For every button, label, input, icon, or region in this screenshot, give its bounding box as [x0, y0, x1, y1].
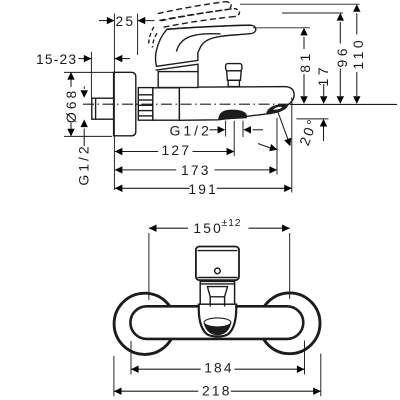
- svg-text:96: 96: [334, 45, 350, 68]
- handle back dashed arcs: [152, 33, 157, 47]
- svg-text:G1/2: G1/2: [170, 122, 212, 138]
- cartridge collar (front): [200, 281, 234, 306]
- svg-text:±12: ±12: [222, 217, 242, 229]
- escutcheon (side view): [114, 72, 136, 136]
- handle top edge (thick): [167, 25, 251, 29]
- wall bar (capsule): [130, 306, 303, 339]
- valve body: [153, 88, 180, 120]
- svg-text:127: 127: [161, 143, 191, 158]
- dim 96: [282, 13, 350, 104]
- dim 15-23: [36, 52, 130, 98]
- left escutcheon (front): [114, 293, 175, 354]
- dim Ø68: [63, 72, 113, 136]
- cartridge housing: [156, 64, 199, 87]
- centerline (side view axis): [83, 103, 293, 105]
- label G1/2 (wall connection): [75, 87, 91, 186]
- dim 25: [99, 14, 155, 56]
- spout aerator boss (black dome): [218, 110, 247, 120]
- dim 150±12: [149, 217, 290, 300]
- wall nipple: [92, 98, 115, 119]
- svg-text:25: 25: [116, 14, 136, 29]
- spout mouth slit (white): [273, 107, 282, 110]
- handle (solid): [156, 25, 256, 66]
- svg-text:81: 81: [297, 50, 313, 73]
- svg-text:173: 173: [181, 163, 211, 178]
- dim 218: [114, 354, 321, 399]
- spout mouth (black almond): [266, 104, 287, 114]
- diverter knob: [226, 64, 242, 87]
- handle inner curve: [176, 34, 220, 52]
- dim 184: [131, 341, 305, 376]
- dimension base line (right, centerline extension): [290, 103, 397, 105]
- handle (front): [196, 247, 239, 281]
- svg-text:17: 17: [315, 64, 331, 87]
- svg-text:G1/2: G1/2: [75, 143, 91, 185]
- hex union nut: [138, 88, 153, 121]
- svg-text:184: 184: [204, 360, 234, 375]
- svg-text:218: 218: [202, 384, 232, 399]
- mixer body + spout outline: [179, 87, 294, 121]
- dim 127: [115, 121, 234, 158]
- dim 20°: [258, 111, 329, 153]
- dim 110: [240, 4, 366, 104]
- svg-text:Ø68: Ø68: [63, 88, 79, 123]
- handle raised position 2 (dashed): [158, 2, 231, 21]
- dim 17: [315, 64, 331, 104]
- dim 173: [115, 118, 277, 178]
- aerator lens (front): [204, 318, 231, 327]
- dim 81: [253, 28, 313, 104]
- right escutcheon (front): [259, 293, 320, 354]
- spout (front view U): [199, 304, 237, 337]
- svg-text:15-23: 15-23: [36, 52, 77, 67]
- handle screw hole: [215, 268, 221, 274]
- svg-text:191: 191: [188, 182, 218, 197]
- nipple thread relief line: [95, 98, 97, 119]
- svg-text:150: 150: [193, 221, 223, 236]
- wall face extension line: [113, 14, 115, 191]
- label G1/2 (shower outlet): [170, 121, 264, 139]
- handle raised position 1 (dashed): [161, 9, 240, 28]
- aerator opening (front, black): [204, 323, 231, 335]
- dim 191: [115, 98, 292, 197]
- svg-text:110: 110: [350, 37, 366, 70]
